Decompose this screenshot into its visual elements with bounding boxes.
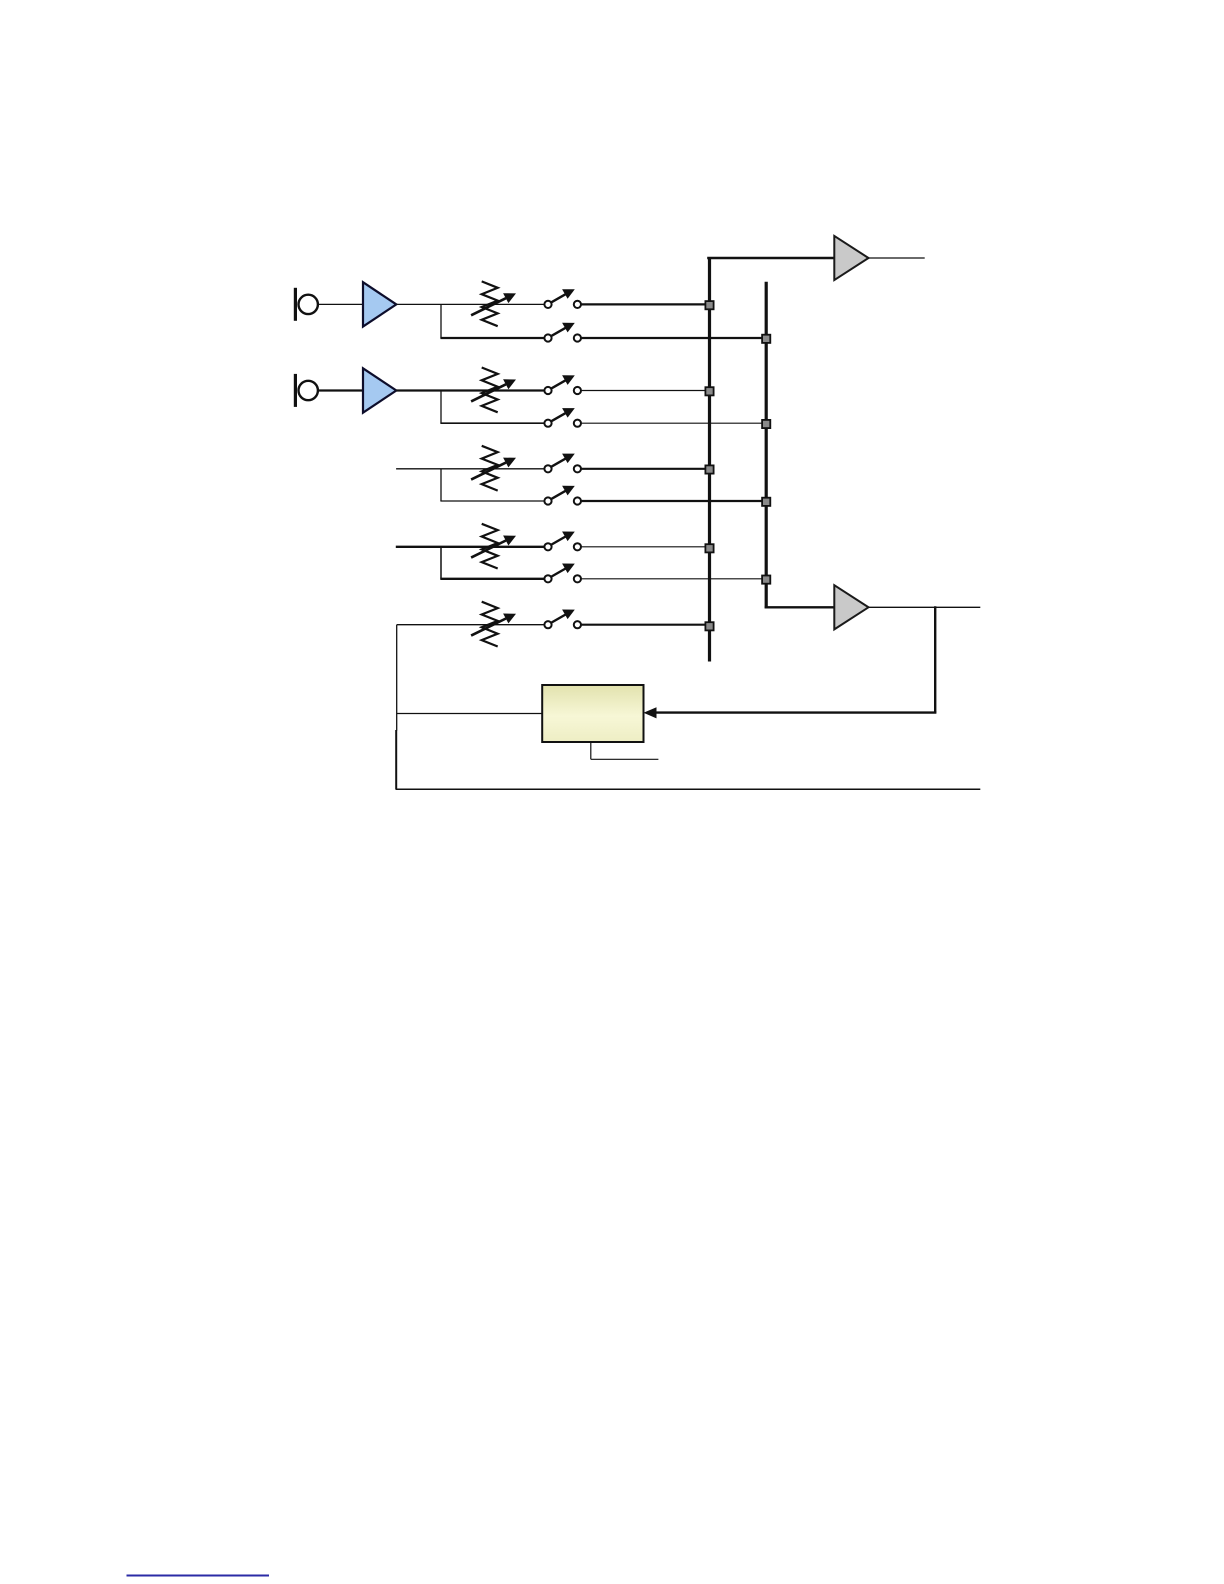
left mix bus (708, 257, 711, 662)
wire right bus elbow to amp G2 (765, 606, 835, 608)
junction node N5 (705, 622, 713, 630)
variable attenuator VR2 (471, 368, 516, 413)
wire SW1B to right bus (581, 337, 766, 339)
wire line input 2 (396, 546, 545, 548)
wire MIC1 to preamp (318, 303, 363, 305)
output amp G1 (834, 236, 868, 280)
variable attenuator VR1 (471, 281, 516, 326)
wire line input 1 (396, 468, 544, 470)
junction node N1 (705, 301, 713, 309)
switch SW5 (544, 610, 581, 629)
wire SW4A to left bus (581, 546, 710, 548)
junction node N9 (762, 576, 770, 584)
mic preamp A2 (363, 368, 396, 412)
wire SW3B to right bus (581, 500, 766, 502)
junction node N6 (762, 335, 770, 343)
microphone MIC2 (294, 374, 318, 407)
wire row2 lower branch to SW2B (440, 422, 544, 424)
switch SW3B (544, 486, 581, 505)
wire SW4B to right bus (581, 578, 766, 580)
wire bottom feedback rail (396, 788, 981, 790)
mic preamp A1 (363, 282, 396, 326)
right mix bus (765, 282, 768, 609)
wire left bus to amp G1 (707, 257, 834, 259)
block label leader line (591, 742, 659, 759)
wire branch down row2 (440, 391, 442, 424)
switch SW2B (544, 408, 581, 427)
switch SW4B (544, 564, 581, 583)
switch SW1B (544, 323, 581, 342)
wire A2 output to switch SW2A (396, 389, 544, 391)
wire left feedback rail vertical thick (395, 730, 397, 789)
variable attenuator VR4 (471, 524, 516, 569)
processing block (AGC) (542, 685, 643, 742)
wire SW5 to left bus (581, 624, 710, 626)
wire row1 lower branch to SW1B (440, 337, 544, 339)
switch SW1A (544, 289, 581, 308)
switch SW3A (544, 454, 581, 473)
variable attenuator VR5 (471, 602, 516, 647)
junction node N7 (762, 420, 770, 428)
wire block output left (397, 713, 543, 715)
switch SW4A (544, 532, 581, 551)
junction node N2 (705, 387, 713, 395)
wire SW3A to left bus (581, 468, 710, 470)
wire G1 output (869, 257, 925, 259)
footer rule (127, 1575, 270, 1577)
wire feedback to block (644, 707, 937, 718)
wire branch down row1 (440, 304, 442, 338)
wire G2 output (869, 606, 981, 608)
wire A1 output to switch SW1A (396, 303, 544, 305)
junction node N4 (705, 544, 713, 552)
wire SW2B to right bus (581, 422, 766, 424)
junction node N3 (705, 465, 713, 473)
wire SW2A to left bus (581, 390, 710, 392)
wire feedback input row5 (397, 624, 545, 626)
wire branch down row3 (440, 469, 442, 501)
wire row4 lower branch to SW4B (440, 578, 544, 580)
wire left feedback rail vertical (396, 625, 398, 731)
output amp G2 (834, 585, 868, 629)
junction node N8 (762, 498, 770, 506)
wire branch down row4 (440, 547, 442, 579)
wire SW1A to left bus (581, 303, 710, 305)
wire MIC2 to preamp (318, 389, 363, 391)
variable attenuator VR3 (471, 446, 516, 491)
wire feedback branch down (934, 606, 936, 712)
microphone MIC1 (294, 288, 318, 321)
wire row3 lower branch to SW3B (440, 500, 544, 502)
switch SW2A (544, 375, 581, 394)
